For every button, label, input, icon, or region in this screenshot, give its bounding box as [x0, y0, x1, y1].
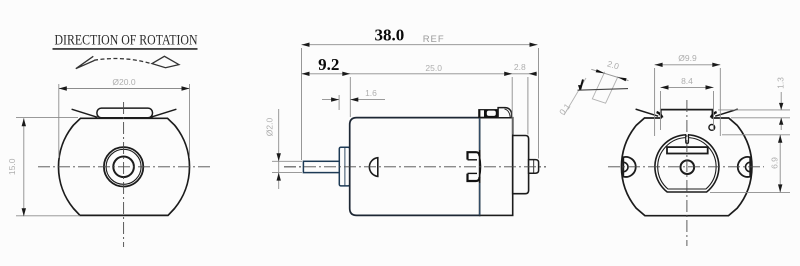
svg-text:8.4: 8.4 — [681, 76, 693, 86]
svg-text:15.0: 15.0 — [7, 158, 17, 175]
svg-text:Ø20.0: Ø20.0 — [112, 77, 135, 87]
svg-text:1.3: 1.3 — [776, 77, 786, 89]
svg-text:1.6: 1.6 — [365, 88, 377, 98]
svg-text:Ø9.9: Ø9.9 — [678, 53, 697, 63]
svg-text:Ø2.0: Ø2.0 — [265, 118, 275, 137]
svg-text:2.8: 2.8 — [514, 62, 526, 72]
svg-text:9.2: 9.2 — [318, 55, 339, 74]
svg-text:38.0: 38.0 — [375, 26, 405, 45]
svg-text:6.9: 6.9 — [770, 157, 780, 169]
svg-text:REF: REF — [423, 34, 445, 45]
svg-text:DIRECTION OF ROTATION: DIRECTION OF ROTATION — [55, 33, 198, 49]
svg-text:25.0: 25.0 — [425, 63, 442, 73]
